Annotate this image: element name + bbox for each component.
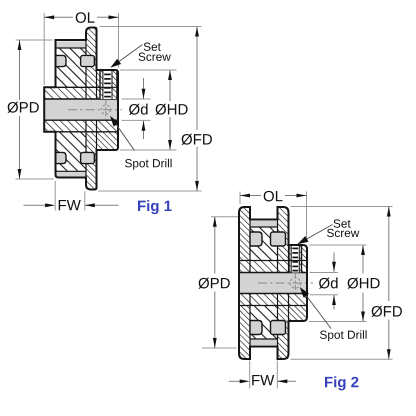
Fig2 spot drill circle [290,278,300,288]
Fig2 bore top edge [239,272,307,274]
Fig1 spot drill leader [113,119,135,150]
Fig2 FW dimension right [277,380,296,382]
Fig1 label OL [76,12,95,23]
Fig2 FW dimension left [229,380,241,382]
Fig2 section outline [239,207,307,359]
Fig2 flange-hub boundary [288,245,290,321]
Fig2 label OL [264,191,283,202]
Fig2 right flange inner boundary [277,207,279,359]
Fig1 PD arrow bottom [18,169,22,179]
Fig2 HD arrow bottom [361,312,365,322]
Fig1 inner edge line above bottom land [56,170,87,172]
Fig1 bore bottom edge [44,119,118,121]
Fig1 FD extension top [100,26,202,28]
Fig2 spot drill vertical dash [294,273,296,293]
Fig2 OL dimension line [240,195,261,197]
Fig2 HD dimension line [362,245,364,274]
Fig2 toothed body hatch lower [250,306,278,340]
Fig1 FW dimension left [24,204,47,206]
Fig2 hub band hatch below bore [239,294,307,306]
Fig1 bore top edge [44,98,118,100]
Fig2 hub band bottom line [239,305,307,307]
Fig2 spot drill leader [302,290,331,329]
Fig2 FW extension left [249,361,251,389]
Fig2 hub hatch upper [289,245,308,261]
Fig2 FD extension bottom [291,358,393,360]
Fig1 flange hatch upper [86,28,97,88]
Fig1 set screw leader [113,45,143,66]
Fig1 FW dimension right [85,204,119,206]
Fig1 hub hatch lower [97,132,119,150]
pulley Fig1 body (white fill of section profile) [44,28,118,190]
Fig2 PD extension line top [211,216,238,218]
Fig2 bore centerline [258,282,313,284]
Fig1 label PD [8,102,39,113]
Fig2 PD dimension line [214,217,216,274]
Fig1 bore dia arrow top [143,78,145,99]
Fig1 FD arrow top [195,27,199,37]
Fig1 pocket upper-right [81,55,95,66]
Fig2 hub band top line [239,260,307,262]
Fig2 OL extension line right [306,192,308,243]
Fig1 toothed body hatch upper [56,48,87,87]
Fig1 OL extension line right [118,13,120,68]
Fig2 PD arrow bottom [213,338,217,348]
Fig2 bore dia extension top [310,272,339,274]
Fig1 PD extension line bottom [16,178,54,180]
Fig1 PD arrow top [18,40,22,50]
Fig1 bore dia extension bottom [122,119,151,121]
Fig1 HD extension bottom [120,149,177,151]
Fig1 toothed body hatch lower [56,132,87,172]
Fig2 PD extension line bottom [202,347,237,349]
Fig1 hub band bottom line [44,131,118,133]
Fig2 tooth land band top (gray) [250,221,278,227]
Fig2 bore dia arrow bottom [333,295,335,310]
Fig1 PD dimension line [19,40,21,100]
Fig1 hub band hatch below bore [44,120,118,132]
Fig1 label FW [59,200,81,210]
Fig1 label Set Screw [144,43,161,51]
Fig1 label d [129,104,148,115]
Fig1 HD arrow top [168,70,172,80]
Fig2 caption [325,376,358,390]
Fig2 right flange hatch lower [278,306,289,360]
Fig2 bore (gray band) [239,273,307,294]
Fig2 bore bottom edge [239,293,307,295]
Fig2 left flange hatch upper [239,207,250,261]
Fig2 left flange hatch lower [239,306,250,360]
Fig2 left flange inner boundary [249,207,251,359]
Fig1 section outline [44,28,118,190]
Fig2 right flange hatch upper [278,207,289,261]
Fig2 bore dia arrow top [333,253,335,272]
Fig1 hub band hatch above bore [44,87,118,99]
Fig2 pocket lower-left [250,321,262,335]
Fig2 tooth land band bottom (gray) [250,339,278,345]
Fig2 bore dia extension bottom [310,294,339,296]
Fig2 set screw tapped hole [289,245,302,273]
Fig1 flange hatch lower [86,132,97,190]
Fig2 label HD [348,278,380,289]
Fig2 label Set Screw [334,219,351,227]
Fig1 FW extension left [54,181,56,211]
Fig1 flange-body boundary line [85,40,87,178]
Fig2 OL arrow right [297,194,307,198]
Fig1 PD extension line top [16,39,53,41]
Fig1 bore (gray band) [44,99,118,120]
Fig1 FD arrow bottom [195,181,199,191]
Fig1 set screw tapped hole [100,70,117,99]
Fig2 hub band hatch above bore [239,261,307,273]
Fig1 OL arrow left [44,15,54,19]
Fig2 label Spot Drill [320,330,367,341]
Fig1 FD extension bottom [98,190,202,192]
Fig1 label HD [156,104,188,115]
Fig1 OL arrow right [109,15,119,19]
Fig2 label d [319,277,338,288]
Fig1 bore dia extension top [122,98,151,100]
Fig2 pocket upper-left [250,232,262,246]
Fig2 HD extension bottom [309,321,367,323]
Fig2 pocket lower-right [271,321,286,335]
Fig2 toothed body hatch upper [250,227,278,261]
Fig1 spot drill vertical dash [105,100,107,120]
Fig1 OL dimension line [44,16,73,18]
Fig1 hub hatch upper [97,70,119,87]
Fig2 OL arrow left [240,194,250,198]
Fig1 HD dimension line [169,70,171,101]
Fig2 FD arrow top [387,207,391,217]
Fig1 bore centerline [68,109,122,111]
Fig1 HD extension top [120,69,177,71]
Fig1 tooth land band bottom (gray) [56,171,87,176]
Fig2 HD extension top [309,244,367,246]
Fig1 inner edge line under top land [56,47,87,49]
Fig2 FD extension top [291,206,393,208]
Fig2 inner edge line above bottom land [250,338,278,340]
Fig1 OL extension line left [43,13,45,85]
Fig2 label FW [252,375,274,385]
Fig1 FW extension right [84,192,86,211]
Fig2 label FD [372,306,402,317]
Fig2 label PD [199,278,230,289]
Fig1 spot drill circle [101,105,110,114]
Fig1 label FD [182,134,212,145]
Fig2 hub hatch lower [289,306,308,322]
Fig2 FW extension right [276,361,278,389]
Fig2 PD arrow top [213,217,217,227]
Fig1 caption [138,200,172,214]
Fig2 FD dimension line [388,207,390,302]
Fig1 pocket lower-left [56,152,67,163]
Fig1 FD dimension line [196,27,198,131]
Fig1 pocket lower-right [81,152,95,163]
Fig2 inner edge line under top land [250,226,278,228]
Fig2 FD arrow bottom [387,349,391,359]
Fig1 HD arrow bottom [168,140,172,150]
pulley Fig2 body (white fill of section profile) [239,207,307,359]
Fig1 pocket upper-left [56,55,67,66]
Fig1 label Spot Drill [125,159,172,170]
Fig1 hub band top line [44,86,118,88]
Fig2 pocket upper-right [271,232,286,246]
Fig2 set screw leader [300,225,333,243]
Fig1 flange-hub boundary line [96,70,98,150]
Fig2 HD arrow top [361,245,365,255]
Fig1 bore dia arrow bottom [143,121,145,139]
Fig2 OL extension line left [239,192,241,205]
Fig1 tooth land band top (gray) [56,42,87,49]
